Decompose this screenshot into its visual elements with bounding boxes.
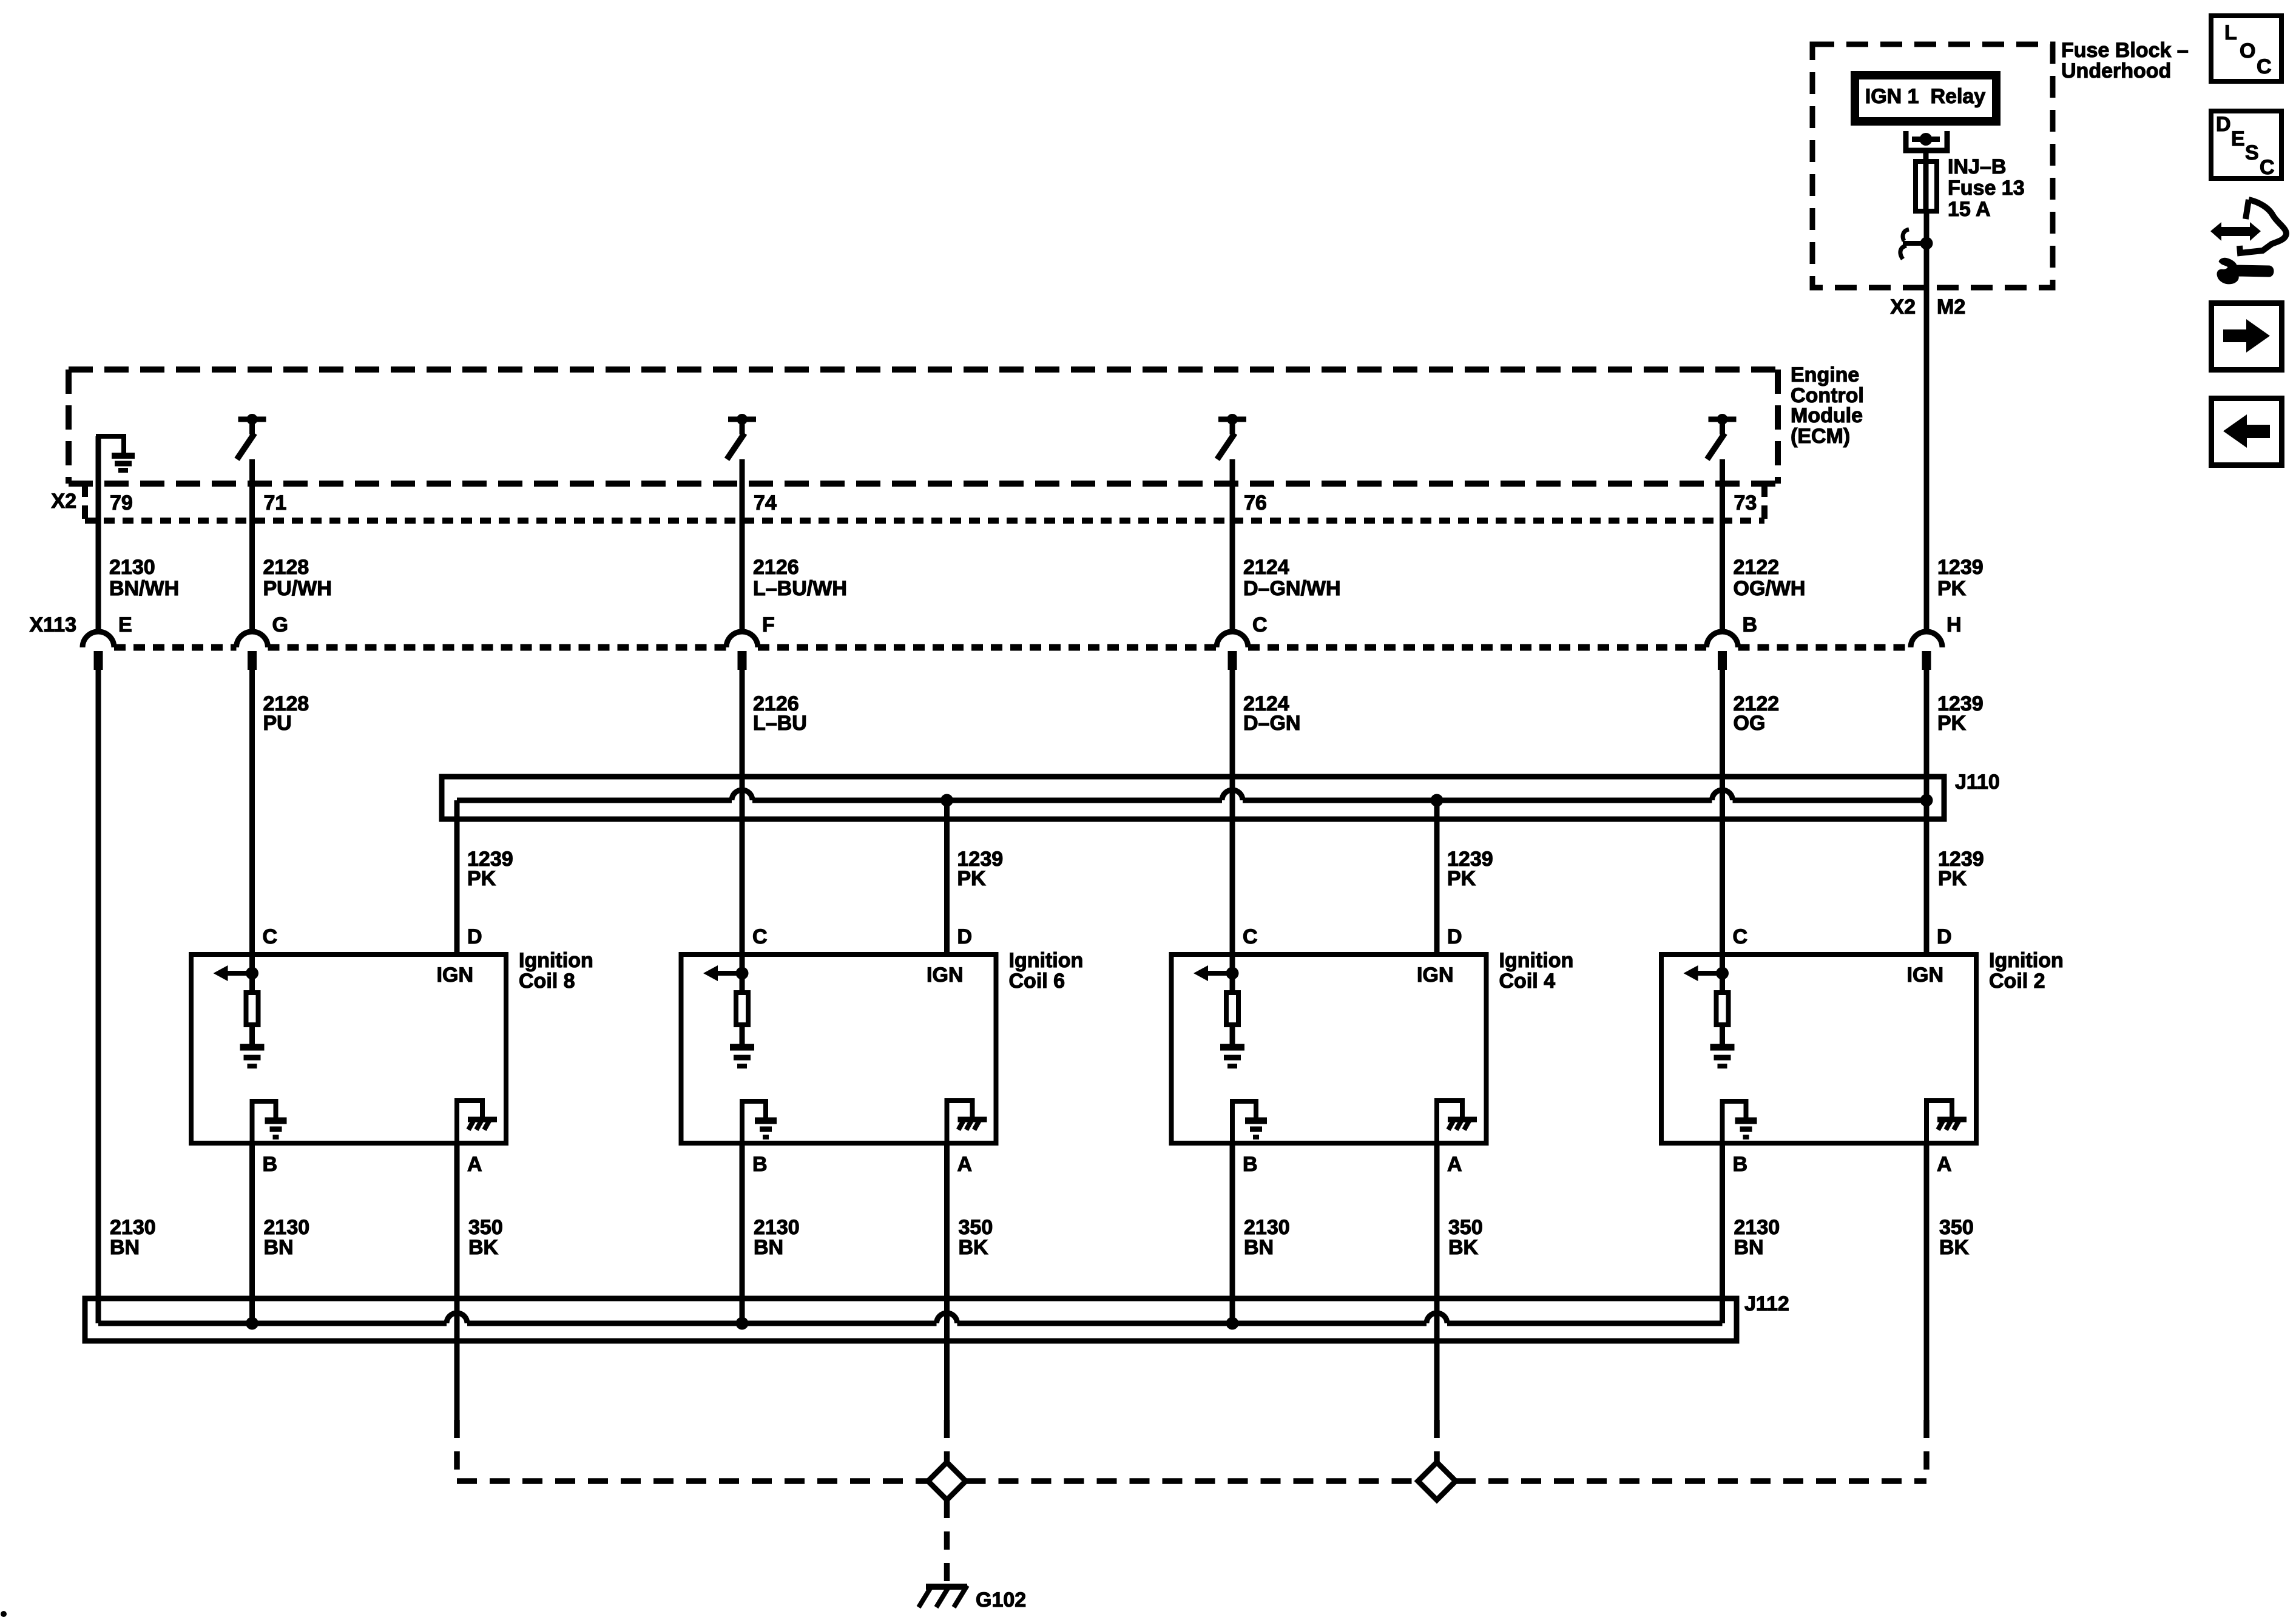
svg-text:2124: 2124 bbox=[1243, 556, 1289, 579]
svg-text:G102: G102 bbox=[976, 1588, 1026, 1612]
svg-text:Coil 4: Coil 4 bbox=[1499, 970, 1556, 993]
svg-text:H: H bbox=[1947, 613, 1962, 636]
svg-text:IGN: IGN bbox=[1417, 964, 1453, 987]
svg-text:B: B bbox=[1243, 1153, 1258, 1176]
svg-text:Ignition: Ignition bbox=[1009, 949, 1084, 972]
svg-text:OG: OG bbox=[1734, 712, 1766, 735]
svg-text:X2: X2 bbox=[1890, 295, 1916, 319]
svg-text:G: G bbox=[272, 613, 288, 636]
svg-text:M2: M2 bbox=[1937, 295, 1965, 319]
svg-text:BN/WH: BN/WH bbox=[109, 577, 179, 600]
svg-text:D–GN: D–GN bbox=[1243, 712, 1300, 735]
svg-text:Fuse 13: Fuse 13 bbox=[1948, 177, 2025, 200]
svg-text:X2: X2 bbox=[51, 490, 76, 513]
svg-text:D: D bbox=[957, 925, 973, 948]
svg-text:BK: BK bbox=[468, 1236, 499, 1259]
svg-text:L–BU: L–BU bbox=[753, 712, 807, 735]
svg-text:B: B bbox=[1743, 613, 1758, 636]
svg-text:IGN: IGN bbox=[927, 964, 963, 987]
svg-text:74: 74 bbox=[754, 491, 777, 515]
svg-text:INJ–B: INJ–B bbox=[1948, 155, 2006, 178]
svg-text:PU/WH: PU/WH bbox=[263, 577, 332, 600]
svg-text:BN: BN bbox=[264, 1236, 294, 1259]
svg-text:79: 79 bbox=[110, 491, 133, 515]
svg-text:B: B bbox=[263, 1153, 278, 1176]
svg-text:Ignition: Ignition bbox=[519, 949, 593, 972]
svg-text:Ignition: Ignition bbox=[1989, 949, 2064, 972]
svg-text:PK: PK bbox=[1938, 867, 1967, 890]
svg-text:BK: BK bbox=[959, 1236, 989, 1259]
svg-text:C: C bbox=[1252, 613, 1268, 636]
svg-text:C: C bbox=[2260, 156, 2275, 179]
svg-text:Underhood: Underhood bbox=[2061, 59, 2171, 83]
svg-text:Coil 8: Coil 8 bbox=[519, 970, 575, 993]
svg-text:E: E bbox=[2231, 127, 2245, 150]
svg-text:E: E bbox=[118, 613, 132, 636]
svg-text:D: D bbox=[2216, 113, 2231, 136]
svg-text:L–BU/WH: L–BU/WH bbox=[753, 577, 847, 600]
svg-text:2128: 2128 bbox=[263, 556, 309, 579]
svg-text:2130: 2130 bbox=[109, 556, 155, 579]
svg-text:C: C bbox=[1243, 925, 1258, 948]
svg-text:B: B bbox=[752, 1153, 768, 1176]
svg-text:Engine: Engine bbox=[1791, 363, 1859, 387]
svg-text:F: F bbox=[762, 613, 775, 636]
svg-text:BK: BK bbox=[1939, 1236, 1970, 1259]
svg-text:73: 73 bbox=[1734, 491, 1757, 515]
svg-text:PK: PK bbox=[957, 867, 987, 890]
svg-text:D: D bbox=[467, 925, 482, 948]
svg-text:BK: BK bbox=[1448, 1236, 1479, 1259]
svg-text:Module: Module bbox=[1791, 404, 1863, 427]
svg-text:IGN 1 Relay: IGN 1 Relay bbox=[1865, 85, 1986, 108]
svg-text:Ignition: Ignition bbox=[1499, 949, 1574, 972]
svg-text:BN: BN bbox=[1734, 1236, 1764, 1259]
svg-text:Fuse Block –: Fuse Block – bbox=[2061, 39, 2189, 62]
svg-text:A: A bbox=[957, 1153, 973, 1176]
svg-text:2126: 2126 bbox=[753, 556, 799, 579]
svg-text:BN: BN bbox=[1244, 1236, 1274, 1259]
svg-text:BN: BN bbox=[110, 1236, 140, 1259]
svg-text:S: S bbox=[2245, 141, 2259, 164]
svg-text:Coil 2: Coil 2 bbox=[1989, 970, 2045, 993]
svg-text:A: A bbox=[1937, 1153, 1952, 1176]
svg-text:C: C bbox=[263, 925, 278, 948]
svg-text:O: O bbox=[2240, 39, 2255, 62]
svg-text:C: C bbox=[2257, 55, 2272, 78]
svg-text:J112: J112 bbox=[1744, 1292, 1789, 1315]
svg-text:76: 76 bbox=[1244, 491, 1267, 515]
svg-text:OG/WH: OG/WH bbox=[1734, 577, 1806, 600]
svg-text:A: A bbox=[467, 1153, 482, 1176]
svg-text:J110: J110 bbox=[1955, 771, 2000, 794]
svg-text:15 A: 15 A bbox=[1948, 198, 1991, 221]
svg-text:X113: X113 bbox=[29, 613, 76, 636]
svg-text:IGN: IGN bbox=[1907, 964, 1943, 987]
svg-text:D: D bbox=[1937, 925, 1952, 948]
svg-text:71: 71 bbox=[264, 491, 287, 515]
svg-text:C: C bbox=[752, 925, 768, 948]
svg-text:D–GN/WH: D–GN/WH bbox=[1243, 577, 1341, 600]
svg-text:B: B bbox=[1733, 1153, 1748, 1176]
svg-text:C: C bbox=[1733, 925, 1748, 948]
svg-text:BN: BN bbox=[754, 1236, 783, 1259]
svg-text:1239: 1239 bbox=[1937, 556, 1984, 579]
svg-text:Coil 6: Coil 6 bbox=[1009, 970, 1065, 993]
svg-text:L: L bbox=[2224, 21, 2237, 44]
svg-text:PU: PU bbox=[263, 712, 292, 735]
svg-text:D: D bbox=[1447, 925, 1462, 948]
svg-text:PK: PK bbox=[1937, 577, 1967, 600]
svg-text:IGN: IGN bbox=[437, 964, 473, 987]
svg-text:PK: PK bbox=[1937, 712, 1967, 735]
svg-text:A: A bbox=[1447, 1153, 1462, 1176]
svg-text:PK: PK bbox=[467, 867, 496, 890]
svg-text:2122: 2122 bbox=[1734, 556, 1780, 579]
svg-text:PK: PK bbox=[1447, 867, 1476, 890]
svg-text:(ECM): (ECM) bbox=[1791, 425, 1850, 448]
